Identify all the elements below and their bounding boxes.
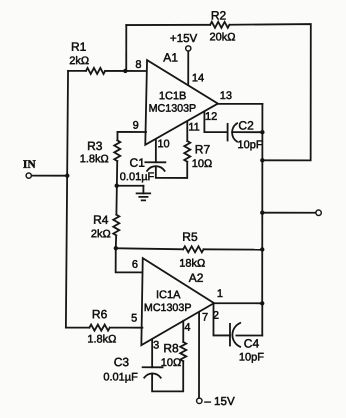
svg-text:R5: R5: [182, 230, 198, 244]
svg-text:9: 9: [133, 120, 139, 132]
svg-text:C3: C3: [114, 355, 130, 369]
svg-text:8: 8: [135, 59, 141, 71]
svg-text:10pF: 10pF: [239, 351, 264, 363]
svg-text:1.8kΩ: 1.8kΩ: [87, 334, 116, 346]
svg-text:1C1B: 1C1B: [159, 90, 187, 102]
svg-text:C2: C2: [238, 118, 254, 132]
svg-text:4: 4: [184, 322, 190, 334]
svg-text:7: 7: [202, 312, 208, 324]
svg-text:R3: R3: [87, 139, 103, 153]
svg-text:6: 6: [132, 259, 138, 271]
svg-text:10: 10: [157, 138, 169, 150]
svg-text:5: 5: [131, 312, 137, 324]
svg-text:C4: C4: [244, 336, 260, 350]
svg-text:1.8kΩ: 1.8kΩ: [80, 153, 109, 165]
svg-text:A1: A1: [163, 50, 178, 64]
svg-text:10Ω: 10Ω: [161, 357, 181, 369]
svg-text:A2: A2: [189, 271, 204, 285]
svg-text:+15V: +15V: [170, 32, 198, 45]
svg-text:IN: IN: [23, 159, 36, 171]
svg-text:IC1A: IC1A: [156, 289, 181, 301]
svg-text:11: 11: [188, 122, 199, 134]
svg-text:R2: R2: [211, 9, 227, 23]
svg-text:3: 3: [153, 339, 159, 351]
svg-text:18kΩ: 18kΩ: [179, 258, 205, 270]
svg-text:10pF: 10pF: [238, 139, 263, 151]
svg-text:12: 12: [205, 111, 217, 123]
svg-text:20kΩ: 20kΩ: [209, 31, 235, 43]
svg-text:R7: R7: [195, 142, 211, 156]
svg-text:R8: R8: [163, 341, 179, 355]
svg-text:C1: C1: [130, 156, 146, 170]
svg-text:10Ω: 10Ω: [192, 158, 212, 170]
svg-text:MC1303P: MC1303P: [149, 103, 197, 115]
svg-text:– 15V: – 15V: [204, 395, 235, 408]
svg-text:R6: R6: [92, 307, 108, 321]
svg-text:R4: R4: [93, 213, 109, 227]
svg-text:MC1303P: MC1303P: [144, 302, 192, 314]
svg-text:0.01µF: 0.01µF: [103, 371, 138, 383]
svg-text:2: 2: [213, 310, 219, 322]
svg-text:R1: R1: [71, 40, 87, 54]
svg-text:1: 1: [217, 288, 223, 300]
svg-text:2kΩ: 2kΩ: [69, 55, 89, 67]
svg-text:2kΩ: 2kΩ: [91, 228, 111, 240]
svg-text:0.01µF: 0.01µF: [120, 171, 155, 183]
svg-text:13: 13: [220, 90, 232, 102]
svg-text:14: 14: [192, 72, 204, 84]
